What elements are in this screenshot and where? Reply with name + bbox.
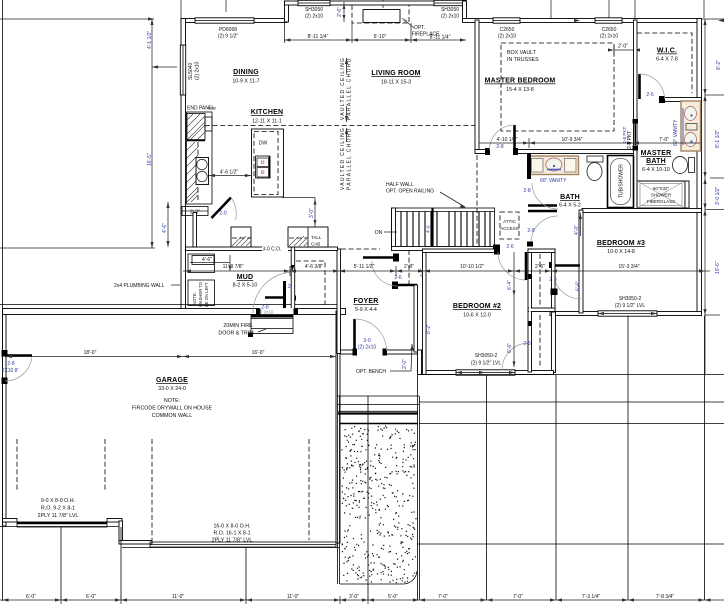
svg-text:12-11 X 11-1: 12-11 X 11-1	[252, 119, 282, 125]
svg-text:SHOWER: SHOWER	[651, 193, 672, 198]
svg-text:10'-10 1/2": 10'-10 1/2"	[460, 264, 484, 270]
svg-text:4'-0: 4'-0	[426, 225, 431, 233]
svg-text:SH3050-2: SH3050-2	[619, 296, 642, 302]
stairs	[392, 208, 501, 252]
svg-text:COMMON WALL: COMMON WALL	[152, 413, 192, 419]
svg-text:2'-8": 2'-8"	[404, 264, 414, 270]
walkway vertical lines	[337, 354, 339, 584]
svg-text:OPT.: OPT.	[414, 25, 425, 31]
garage service door jambs	[2, 350, 8, 357]
garage north common wall	[3, 309, 346, 315]
bed3 dims	[580, 213, 582, 237]
left dim 4-6 plumbing	[167, 202, 169, 247]
attic access	[500, 212, 519, 239]
svg-text:TUB/SHOWER: TUB/SHOWER	[619, 164, 625, 198]
garage south wall left	[3, 519, 18, 523]
svg-text:WASHER TO: WASHER TO	[198, 281, 203, 307]
top-left horizontal dim line	[0, 18, 154, 20]
svg-text:CAB: CAB	[311, 242, 320, 247]
svg-text:FOYER: FOYER	[353, 298, 378, 305]
svg-text:9-0 X 8-0 O.H.: 9-0 X 8-0 O.H.	[41, 498, 75, 504]
svg-text:6'-6": 6'-6"	[507, 343, 513, 353]
svg-text:11'-0": 11'-0"	[287, 594, 300, 600]
vaulted ceiling dashed line	[205, 125, 475, 127]
svg-text:2-8 PKT: 2-8 PKT	[627, 131, 633, 149]
svg-text:(2) 2x10: (2) 2x10	[498, 34, 517, 40]
svg-text:3-0 C.O.: 3-0 C.O.	[263, 247, 282, 253]
svg-text:3'-0": 3'-0"	[309, 208, 315, 218]
walkway bottom edge	[340, 571, 417, 584]
hall dashed line	[476, 155, 478, 247]
svg-text:3'-0": 3'-0"	[349, 594, 359, 600]
svg-text:R.O. 16-1 X 8-1: R.O. 16-1 X 8-1	[213, 531, 250, 537]
svg-text:11'-0": 11'-0"	[172, 594, 185, 600]
mud closet dashed	[296, 261, 325, 305]
garage right wall	[336, 311, 340, 543]
svg-text:2-6: 2-6	[394, 275, 401, 281]
svg-text:(2) 2x10: (2) 2x10	[600, 34, 619, 40]
master door leaf+arc	[513, 125, 516, 150]
right exterior wall	[697, 19, 702, 316]
svg-text:2-6: 2-6	[523, 341, 530, 347]
svg-text:5-9 X 4-4: 5-9 X 4-4	[355, 307, 377, 313]
wic door leaf+arc	[638, 74, 641, 99]
svg-text:8'-11 1/4": 8'-11 1/4"	[308, 34, 329, 40]
svg-text:6-4 X 10-10: 6-4 X 10-10	[642, 167, 670, 173]
svg-text:2-6: 2-6	[646, 92, 653, 98]
svg-text:10'-6": 10'-6"	[715, 261, 721, 274]
hall bath vanity left wall	[527, 153, 531, 179]
svg-text:6'-0": 6'-0"	[86, 594, 96, 600]
svg-text:OPT. BENCH: OPT. BENCH	[356, 369, 386, 375]
foyer west wall	[337, 249, 341, 354]
master bed 2-0 dim	[614, 49, 634, 51]
svg-text:20MIN FIRE: 20MIN FIRE	[223, 323, 253, 329]
hall bath door arc	[532, 183, 558, 209]
stairs bottom wall	[392, 247, 496, 251]
svg-text:2x4 PLUMBING WALL: 2x4 PLUMBING WALL	[114, 283, 165, 289]
hall bath toilet	[587, 156, 603, 162]
garage south wall right	[119, 541, 152, 545]
mud washer dryer	[188, 254, 215, 273]
svg-text:(2) 9 1/2" LVL: (2) 9 1/2" LVL	[615, 303, 646, 309]
wall between bed2 and bed3 south	[552, 312, 556, 373]
bed3 door arc	[553, 271, 581, 299]
svg-text:BATH: BATH	[646, 158, 666, 165]
svg-text:SH3050: SH3050	[305, 7, 323, 13]
svg-text:10-9 X 11-7: 10-9 X 11-7	[232, 79, 259, 85]
svg-text:2-8: 2-8	[523, 188, 530, 194]
svg-text:OPT. OPEN RAILING: OPT. OPEN RAILING	[386, 189, 434, 195]
svg-text:6'-0": 6'-0"	[26, 594, 36, 600]
mud closet west wall	[291, 247, 295, 311]
svg-text:ATTIC: ATTIC	[503, 219, 516, 224]
horizontal line y248	[0, 247, 155, 249]
bed3 door leaf bar	[553, 264, 580, 267]
svg-text:2'-6": 2'-6"	[337, 7, 343, 17]
mud north wall	[186, 247, 338, 251]
right margin dim line	[704, 19, 706, 374]
top wall master	[463, 19, 702, 23]
foyer east wall	[414, 285, 418, 352]
svg-text:7'-0": 7'-0"	[513, 594, 523, 600]
svg-text:PARALLEL CHORD: PARALLEL CHORD	[347, 127, 353, 190]
tick arrows on top wall	[574, 19, 580, 22]
svg-text:3'-0 1/2": 3'-0 1/2"	[715, 186, 721, 205]
svg-text:18-11 X 15-3: 18-11 X 15-3	[381, 80, 411, 86]
left dim line 16-5	[151, 19, 153, 248]
bed2 closet door gap	[529, 277, 531, 323]
bed2 entry door arc	[498, 252, 526, 280]
window C2650 left	[493, 18, 520, 23]
garage service door arc	[5, 356, 32, 381]
main interior dim line	[183, 270, 710, 272]
bottom tick extensions	[60, 596, 62, 604]
svg-text:BOX VAULT: BOX VAULT	[507, 50, 537, 56]
svg-text:BE ON LEFT: BE ON LEFT	[204, 282, 209, 307]
walkway stipple	[342, 426, 417, 584]
south wall bedroom3	[550, 312, 702, 316]
garage header dashed lines	[16, 439, 18, 492]
svg-text:4'-6": 4'-6"	[202, 257, 212, 263]
bed3 west wall	[579, 210, 583, 313]
svg-text:2PLY 11 7/8" LVL: 2PLY 11 7/8" LVL	[38, 513, 79, 519]
kitchen 2-3 dim	[182, 210, 208, 212]
hall door arc	[531, 216, 558, 243]
svg-text:8'-2": 8'-2"	[426, 324, 432, 334]
svg-text:60"X32": 60"X32"	[653, 186, 670, 191]
svg-text:DN: DN	[375, 230, 383, 236]
mud bench wall	[265, 296, 284, 299]
svg-text:MASTER BEDROOM: MASTER BEDROOM	[485, 78, 556, 85]
svg-text:8-2 X 5-10: 8-2 X 5-10	[233, 283, 258, 289]
window SH3050-2 bed3	[598, 311, 657, 316]
tub	[608, 156, 634, 208]
master shower	[637, 181, 685, 208]
svg-text:7'-0": 7'-0"	[438, 594, 448, 600]
garage left wall	[3, 311, 7, 526]
master south wall	[475, 150, 637, 154]
svg-text:SH3050-2: SH3050-2	[475, 353, 498, 359]
svg-text:FIBERGLASS: FIBERGLASS	[647, 199, 675, 204]
master toilet	[673, 157, 688, 174]
bed2 closet door arc	[502, 343, 529, 370]
fire door panel	[251, 315, 293, 334]
svg-text:60" VANITY: 60" VANITY	[540, 178, 567, 184]
left exterior wall	[181, 19, 186, 312]
svg-text:(2) 2x10: (2) 2x10	[358, 345, 377, 351]
svg-text:GARAGE: GARAGE	[156, 377, 188, 384]
svg-text:2PLY 11 7/8" LVL: 2PLY 11 7/8" LVL	[212, 538, 253, 544]
foyer east wall to porch	[418, 350, 422, 375]
svg-text:ACCESS: ACCESS	[500, 226, 519, 231]
svg-text:W.I.C.: W.I.C.	[657, 48, 677, 55]
svg-text:3-0: 3-0	[363, 338, 370, 344]
svg-text:(2) 2x10: (2) 2x10	[305, 14, 324, 20]
svg-text:60" VANITY: 60" VANITY	[673, 119, 679, 146]
kitchen lower cab hatched	[187, 142, 198, 202]
svg-text:TALL: TALL	[311, 235, 322, 240]
box vault dashed	[501, 43, 614, 131]
svg-text:(2) 2x10: (2) 2x10	[441, 14, 460, 20]
bottom dim line	[0, 599, 724, 601]
svg-text:VAULTED CEILING: VAULTED CEILING	[340, 127, 346, 190]
kitchen upper cab hatched	[187, 114, 205, 141]
wic south wall	[661, 98, 702, 102]
top edge extension lines	[180, 0, 182, 19]
island	[252, 129, 284, 197]
svg-text:8'-11 1/4": 8'-11 1/4"	[430, 35, 451, 41]
svg-text:7'-8 3/4": 7'-8 3/4"	[656, 594, 675, 600]
svg-text:8'-2": 8'-2"	[716, 60, 722, 70]
svg-text:33-0 X 24-0: 33-0 X 24-0	[158, 386, 186, 392]
closet column walls	[528, 249, 532, 372]
svg-text:MUD: MUD	[237, 274, 254, 281]
patio vertical lines	[417, 375, 419, 601]
svg-text:NOTE:: NOTE:	[164, 398, 180, 404]
svg-text:DW: DW	[259, 141, 268, 147]
svg-text:4'-1 1/2": 4'-1 1/2"	[147, 30, 153, 49]
svg-text:2X10 8': 2X10 8'	[2, 368, 19, 374]
svg-text:2-8: 2-8	[496, 144, 503, 150]
svg-text:15-4 X 13-8: 15-4 X 13-8	[506, 87, 534, 93]
small cab	[231, 227, 251, 247]
svg-text:4'-0": 4'-0"	[574, 225, 580, 235]
mud south dashes at stairs	[341, 248, 380, 250]
foyer south wall porch edge	[337, 350, 422, 354]
svg-text:11'-3 7/8": 11'-3 7/8"	[223, 264, 244, 270]
left boundary line	[2, 0, 4, 601]
svg-text:10'-9 3/4": 10'-9 3/4"	[561, 137, 582, 143]
mud garage door arc	[253, 272, 294, 313]
bay top wall	[285, 1, 467, 5]
svg-text:DOOR & TRIM: DOOR & TRIM	[218, 331, 253, 337]
mud 4-6 dim	[190, 262, 230, 264]
svg-text:4'-6 3/8": 4'-6 3/8"	[305, 264, 324, 270]
south wall bed2	[421, 371, 554, 375]
svg-text:6-4 X 7-8: 6-4 X 7-8	[656, 57, 678, 63]
svg-text:4'-6": 4'-6"	[162, 223, 168, 233]
top dim line below bay	[285, 39, 467, 41]
bed2 west wall	[423, 249, 427, 375]
svg-text:6'-6": 6'-6"	[576, 281, 582, 291]
svg-text:(2) 2x10: (2) 2x10	[257, 310, 274, 315]
hall bath south wall segment	[528, 204, 557, 207]
svg-text:MASTER: MASTER	[641, 150, 672, 157]
svg-text:7'-0": 7'-0"	[659, 137, 669, 143]
window SH3050 right	[434, 0, 466, 5]
svg-text:2-0: 2-0	[219, 211, 226, 217]
svg-text:(2) 9 1/2": (2) 9 1/2"	[218, 34, 239, 40]
kitchen 3-0 dim	[282, 197, 315, 199]
porch slab band	[337, 395, 419, 397]
svg-text:4'-10 1/2": 4'-10 1/2"	[496, 137, 517, 143]
living/hall wall	[475, 20, 479, 153]
foyer closet lower wall	[395, 284, 417, 287]
svg-text:FIRCODE DRYWALL ON HOUSE: FIRCODE DRYWALL ON HOUSE	[132, 406, 213, 412]
bay step right wall	[463, 1, 467, 22]
svg-text:BATH: BATH	[560, 194, 580, 201]
svg-text:NOTE:: NOTE:	[192, 292, 197, 305]
svg-text:C2650: C2650	[602, 27, 617, 33]
svg-text:15'-3 3/4": 15'-3 3/4"	[618, 264, 639, 270]
wic dashed shelf	[637, 33, 692, 93]
svg-text:KITCHEN: KITCHEN	[251, 109, 284, 116]
svg-text:5'-10": 5'-10"	[374, 34, 387, 40]
master bath vanity	[681, 101, 701, 151]
window PD6068	[195, 18, 254, 23]
svg-text:(2) 9 1/2" LVL: (2) 9 1/2" LVL	[471, 361, 502, 367]
window SL5040	[180, 45, 185, 95]
svg-text:6'-4": 6'-4"	[507, 280, 513, 290]
svg-text:SH3050: SH3050	[441, 7, 459, 13]
bath band south wall	[582, 209, 702, 213]
svg-text:8'-1 1/2": 8'-1 1/2"	[715, 129, 721, 148]
kitchen 4-6 dim	[209, 175, 251, 177]
svg-text:PARALLEL CHORD: PARALLEL CHORD	[347, 57, 353, 120]
svg-text:END PANEL: END PANEL	[187, 106, 215, 112]
top wall dining	[181, 19, 287, 23]
svg-text:(2) 2x10: (2) 2x10	[195, 61, 201, 80]
fire door opening	[260, 308, 294, 316]
house foundation line above garage wall	[0, 304, 337, 306]
wall wic/masterbed	[634, 20, 638, 210]
fireplace dashed surround	[352, 5, 409, 23]
kitchen lower wall	[193, 213, 197, 248]
svg-text:DINING: DINING	[233, 69, 259, 76]
svg-text:10-6 X 12-0: 10-6 X 12-0	[463, 313, 491, 319]
svg-text:HALF WALL: HALF WALL	[386, 182, 414, 188]
svg-text:16'-5": 16'-5"	[147, 153, 153, 166]
svg-text:2'-6": 2'-6"	[535, 264, 545, 270]
svg-text:PD6068: PD6068	[219, 27, 237, 33]
garage service door leaf	[5, 354, 32, 357]
driveway apron lines	[0, 526, 119, 528]
kitchen sink	[196, 158, 209, 185]
kitchen pantry door	[212, 198, 232, 219]
bed2 vertical dim	[513, 252, 515, 367]
bed2 north wall	[423, 249, 498, 253]
pocket door in wic wall	[634, 119, 637, 148]
garage step wall	[119, 521, 123, 543]
svg-text:IN TRUSSES: IN TRUSSES	[507, 57, 539, 63]
svg-text:5'-11 1/2": 5'-11 1/2"	[354, 264, 375, 270]
hall bath vanity	[529, 156, 579, 175]
svg-text:LIVING ROOM: LIVING ROOM	[371, 70, 420, 77]
bay step left wall	[285, 1, 289, 22]
bay depth dim	[343, 2, 345, 22]
svg-text:7'-3 1/4": 7'-3 1/4"	[582, 594, 601, 600]
foyer closet upper wall	[363, 256, 397, 259]
foyer closet door arc	[372, 261, 397, 286]
tall cab	[288, 227, 328, 247]
svg-text:SL5040: SL5040	[188, 63, 194, 80]
svg-text:2-8: 2-8	[527, 228, 534, 234]
master interior dim line	[479, 142, 700, 144]
svg-text:BEDROOM #3: BEDROOM #3	[597, 240, 645, 247]
svg-text:BEDROOM #2: BEDROOM #2	[453, 303, 501, 310]
svg-text:2'-0": 2'-0"	[618, 44, 628, 50]
window SH3050 left	[298, 0, 330, 5]
svg-text:16-0 X 8-0 O.H.: 16-0 X 8-0 O.H.	[213, 524, 250, 530]
svg-text:2-8: 2-8	[7, 361, 14, 367]
garage door 9-0	[17, 522, 107, 527]
svg-text:6-4 X 5-2: 6-4 X 5-2	[559, 203, 581, 209]
svg-text:VAULTED CEILING: VAULTED CEILING	[340, 57, 346, 120]
svg-text:R.O. 9-2 X 8-1: R.O. 9-2 X 8-1	[41, 506, 75, 512]
window C2650 right	[595, 18, 622, 23]
svg-text:4'-6 1/2": 4'-6 1/2"	[220, 170, 239, 176]
svg-text:18'-0": 18'-0"	[84, 350, 97, 356]
patio horizontal lines	[418, 374, 724, 376]
fireplace leader	[402, 18, 414, 28]
short tick at y67	[152, 66, 177, 68]
window SH3050-2 bed2	[456, 370, 515, 375]
garage interior dim	[6, 356, 336, 358]
svg-text:2-6: 2-6	[506, 244, 513, 250]
shower/vanity divider wall	[685, 181, 689, 208]
svg-text:16'-0": 16'-0"	[252, 350, 265, 356]
garage door 16-0	[150, 542, 336, 547]
svg-text:5'-0": 5'-0"	[388, 594, 398, 600]
foyer closet dashed	[408, 250, 410, 284]
kitchen counter outline	[187, 112, 213, 204]
fireplace box	[363, 10, 400, 23]
svg-text:10-0 X 14-8: 10-0 X 14-8	[607, 249, 635, 255]
svg-text:2'-0": 2'-0"	[402, 359, 408, 369]
front door leaf	[353, 319, 356, 351]
svg-text:C2650: C2650	[500, 27, 515, 33]
